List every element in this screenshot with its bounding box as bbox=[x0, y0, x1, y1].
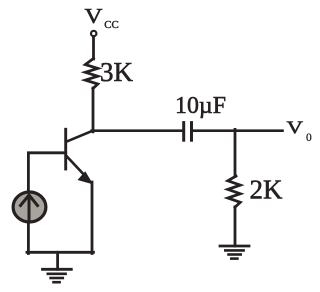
ground right bbox=[220, 246, 249, 259]
Q1 collector lead bbox=[66, 131, 93, 142]
wire R2 to ground bbox=[234, 207, 237, 246]
I1 arrow shaft bbox=[28, 197, 31, 221]
wire base to current source bbox=[28, 153, 65, 191]
wire capacitor to output Vo bbox=[192, 129, 283, 132]
capacitor C1 bbox=[184, 123, 192, 141]
node Vo label bbox=[287, 118, 313, 144]
svg-text:CC: CC bbox=[104, 20, 119, 31]
svg-text:V: V bbox=[85, 4, 103, 28]
Q1 base bar bbox=[64, 129, 67, 169]
wire Vcc terminal to R1 bbox=[92, 37, 95, 60]
resistor R1 3K bbox=[85, 59, 98, 89]
ground left bbox=[43, 269, 72, 282]
svg-text:2K: 2K bbox=[250, 175, 284, 205]
Q1 emitter lead bbox=[66, 156, 88, 180]
resistor R2 2K bbox=[228, 176, 241, 207]
Q1 emitter arrowhead bbox=[79, 173, 92, 184]
wire R1 to collector node bbox=[92, 88, 95, 132]
wire emitter to bottom rail bbox=[91, 182, 94, 254]
node Vcc label bbox=[85, 4, 119, 31]
transistor Q1 bbox=[66, 129, 93, 183]
wire bottom rail bbox=[27, 251, 93, 254]
I1 arrowhead bbox=[21, 195, 38, 206]
Vcc terminal bbox=[91, 31, 96, 36]
wire collector node to capacitor bbox=[92, 129, 184, 132]
svg-text:10µF: 10µF bbox=[175, 93, 226, 119]
wire ground stub bbox=[56, 252, 59, 269]
wire output junction to R2 bbox=[234, 129, 237, 176]
svg-text:V: V bbox=[287, 118, 304, 138]
current source I1 bbox=[13, 192, 46, 222]
wire current source to bottom rail bbox=[27, 222, 30, 254]
svg-text:0: 0 bbox=[306, 132, 312, 144]
svg-text:3K: 3K bbox=[100, 57, 134, 87]
